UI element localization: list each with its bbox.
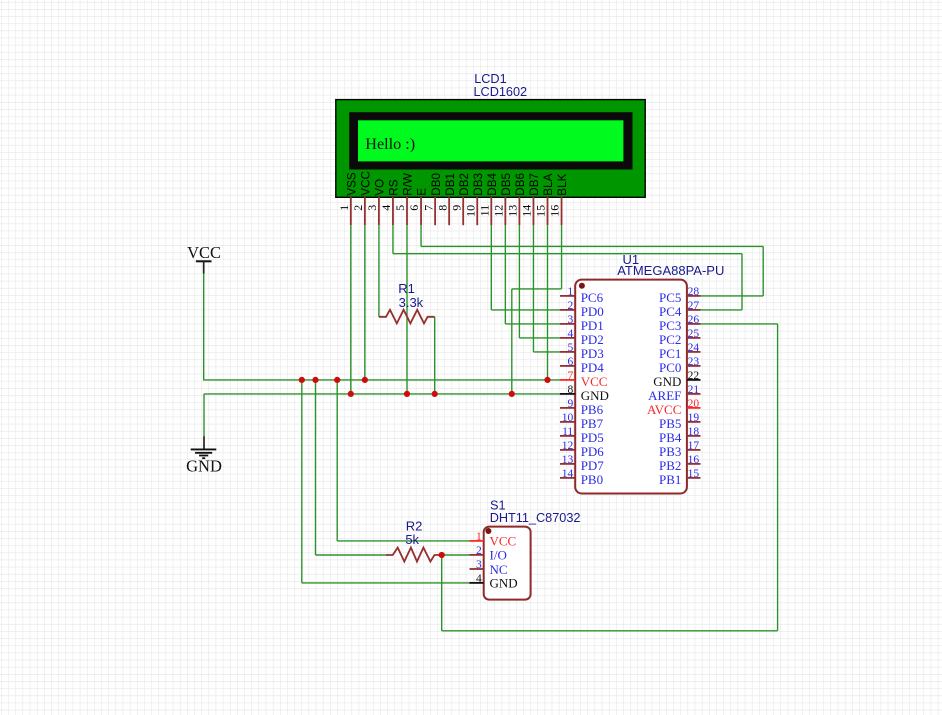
svg-text:20: 20	[688, 398, 700, 410]
svg-text:DB3: DB3	[472, 173, 485, 196]
svg-text:DB6: DB6	[514, 173, 527, 196]
svg-text:PD5: PD5	[581, 430, 604, 445]
svg-text:4: 4	[379, 205, 393, 211]
svg-text:PC2: PC2	[659, 332, 681, 347]
svg-text:PB0: PB0	[581, 472, 603, 487]
svg-text:DHT11_C87032: DHT11_C87032	[490, 511, 581, 525]
svg-text:PC4: PC4	[659, 304, 682, 319]
svg-text:PB1: PB1	[659, 472, 681, 487]
svg-text:DB5: DB5	[500, 172, 513, 195]
svg-text:PD3: PD3	[581, 346, 604, 361]
svg-text:GND: GND	[581, 388, 609, 403]
svg-text:21: 21	[688, 384, 700, 396]
svg-text:PB2: PB2	[659, 458, 681, 473]
svg-text:PC0: PC0	[659, 360, 681, 375]
svg-text:5k: 5k	[405, 532, 419, 547]
svg-text:24: 24	[688, 342, 700, 354]
svg-text:7: 7	[421, 205, 435, 211]
svg-text:PD0: PD0	[581, 304, 604, 319]
svg-text:13: 13	[562, 454, 574, 466]
svg-text:GND: GND	[490, 576, 518, 591]
svg-text:VCC: VCC	[490, 534, 517, 549]
svg-text:28: 28	[688, 286, 700, 298]
svg-text:DB4: DB4	[486, 172, 499, 195]
svg-text:DB7: DB7	[528, 173, 541, 196]
svg-text:PD7: PD7	[581, 458, 605, 473]
svg-text:PB4: PB4	[659, 430, 682, 445]
svg-text:PB5: PB5	[659, 416, 681, 431]
svg-text:15: 15	[688, 468, 700, 480]
svg-text:Hello :): Hello :)	[365, 135, 415, 153]
svg-text:22: 22	[688, 370, 700, 382]
svg-text:VCC: VCC	[581, 374, 608, 389]
svg-text:I/O: I/O	[490, 548, 507, 563]
svg-text:1: 1	[337, 205, 351, 211]
svg-text:DB0: DB0	[430, 172, 443, 195]
svg-text:2: 2	[567, 300, 573, 312]
svg-text:1: 1	[567, 286, 573, 298]
svg-text:LCD1602: LCD1602	[474, 85, 528, 99]
svg-text:PC1: PC1	[659, 346, 681, 361]
svg-text:PD4: PD4	[581, 360, 605, 375]
svg-text:PD6: PD6	[581, 444, 605, 459]
svg-text:PB7: PB7	[581, 416, 604, 431]
svg-text:PC5: PC5	[659, 290, 681, 305]
svg-text:AVCC: AVCC	[647, 402, 681, 417]
svg-text:E: E	[416, 188, 429, 196]
svg-text:26: 26	[688, 314, 700, 326]
svg-text:3: 3	[365, 205, 379, 211]
svg-text:12: 12	[492, 205, 506, 217]
svg-text:VO: VO	[374, 179, 387, 196]
svg-text:14: 14	[520, 205, 534, 217]
svg-text:11: 11	[562, 426, 573, 438]
svg-text:VSS: VSS	[346, 172, 359, 196]
svg-text:PD2: PD2	[581, 332, 604, 347]
svg-text:LCD1: LCD1	[474, 72, 506, 86]
svg-text:14: 14	[562, 468, 574, 480]
svg-text:PB3: PB3	[659, 444, 681, 459]
svg-text:PD1: PD1	[581, 318, 604, 333]
svg-text:13: 13	[506, 205, 520, 217]
svg-text:7: 7	[567, 370, 573, 382]
svg-text:23: 23	[688, 356, 700, 368]
svg-text:10: 10	[562, 412, 574, 424]
svg-text:NC: NC	[490, 562, 508, 577]
svg-text:DB1: DB1	[444, 173, 457, 196]
svg-text:16: 16	[688, 454, 700, 466]
svg-text:BLA: BLA	[542, 173, 555, 195]
svg-text:PC3: PC3	[659, 318, 681, 333]
svg-text:12: 12	[562, 440, 574, 452]
svg-text:2: 2	[351, 205, 365, 211]
svg-text:4: 4	[567, 328, 573, 340]
svg-text:PC6: PC6	[581, 290, 604, 305]
svg-text:ATMEGA88PA-PU: ATMEGA88PA-PU	[617, 263, 724, 278]
svg-text:R/W: R/W	[402, 173, 415, 196]
svg-text:8: 8	[435, 205, 449, 211]
svg-text:9: 9	[567, 398, 573, 410]
svg-text:AREF: AREF	[648, 388, 681, 403]
svg-text:6: 6	[407, 205, 421, 211]
svg-text:17: 17	[688, 440, 700, 452]
svg-text:27: 27	[688, 300, 700, 312]
svg-text:DB2: DB2	[458, 173, 471, 196]
svg-text:BLK: BLK	[556, 173, 569, 195]
svg-text:VCC: VCC	[360, 171, 373, 196]
svg-text:GND: GND	[653, 374, 681, 389]
svg-text:19: 19	[688, 412, 700, 424]
svg-text:4: 4	[476, 573, 482, 585]
svg-text:3.3k: 3.3k	[399, 295, 424, 310]
svg-text:5: 5	[567, 342, 573, 354]
svg-text:9: 9	[449, 205, 463, 211]
svg-text:10: 10	[463, 205, 477, 217]
svg-text:2: 2	[476, 545, 482, 557]
svg-text:11: 11	[478, 205, 492, 217]
svg-text:3: 3	[567, 314, 573, 326]
svg-text:25: 25	[688, 328, 700, 340]
svg-text:VCC: VCC	[187, 243, 221, 262]
svg-text:RS: RS	[388, 179, 401, 195]
svg-text:6: 6	[567, 356, 573, 368]
svg-text:16: 16	[548, 205, 562, 217]
svg-text:PB6: PB6	[581, 402, 604, 417]
svg-text:8: 8	[567, 384, 573, 396]
svg-text:GND: GND	[186, 457, 222, 476]
svg-text:18: 18	[688, 426, 700, 438]
svg-text:3: 3	[476, 559, 482, 571]
svg-text:1: 1	[476, 531, 482, 543]
svg-text:15: 15	[534, 205, 548, 217]
svg-text:5: 5	[393, 205, 407, 211]
